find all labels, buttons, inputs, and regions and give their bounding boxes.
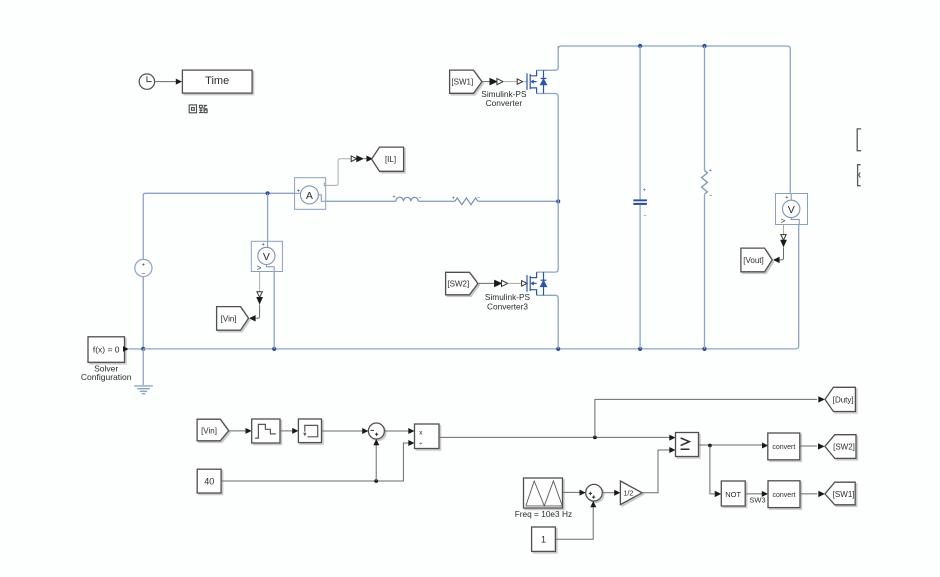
wire generator to sum2 [563,491,581,493]
wire load resistor branch top [704,46,706,171]
wire sum to divide [384,430,408,432]
partial tag bracket 2 at right edge [858,165,861,186]
node load resistor top [702,44,706,48]
svg-text:+: + [643,188,646,194]
wire divide to relational [439,436,670,438]
svg-text:Converter: Converter [486,98,523,108]
wire branch to sum bottom [375,445,377,481]
wire quantizer to hold [280,430,293,432]
partial tag bracket 1 at right edge [857,129,861,151]
svg-text:f(x) = 0: f(x) = 0 [93,345,120,355]
svg-text:[SW2]: [SW2] [447,279,469,288]
node junction V1 branch top [266,191,270,195]
wire branch to NOT [710,446,715,494]
svg-text:V: V [788,204,795,216]
svg-text:−: − [643,213,646,219]
svg-text:[Vin]: [Vin] [221,314,237,323]
svg-text:+: + [785,195,788,201]
solver configuration block f(x)=0 [88,337,125,363]
svg-text:+: + [142,263,145,269]
wire converter to IL tag [364,158,366,160]
DC voltage source [135,259,152,276]
svg-text:convert: convert [772,444,795,451]
divide block [415,424,440,449]
svg-text:÷: ÷ [419,441,423,448]
convert block 1 [768,433,800,460]
svg-text:1: 1 [541,534,546,544]
svg-text:Freq = 10e3 Hz: Freq = 10e3 Hz [515,509,572,519]
load resistor R1 [702,171,708,195]
node junction bottom bus left [141,347,145,351]
voltage sensor block Vout [776,194,808,226]
wire sensor I output to converter [326,159,352,186]
simulink-PS converter U1 [490,78,498,86]
clock block [139,74,154,89]
goto tag SW2 [825,435,856,459]
svg-text:[Duty]: [Duty] [833,395,854,404]
capacitor C1 [633,199,647,201]
goto tag Vout [741,248,772,272]
node duty branch [593,436,597,440]
voltage sensor block Vin [251,241,282,272]
wire converter to gate 1 [503,81,517,83]
goto tag Duty [825,387,855,411]
wire NOT to convert2 [745,493,762,495]
display block Time [182,70,252,93]
svg-text:+: + [392,195,395,201]
wire 1 to sum2 [555,507,593,539]
svg-text:40: 40 [204,476,214,486]
wire V1 branch down [267,193,269,241]
node capacitor top [638,44,642,48]
svg-text:[SW1]: [SW1] [833,490,855,499]
constant block 1 [532,527,556,551]
PS-Simulink converter for Vin [257,292,262,298]
PS-Simulink converter for IL [351,156,357,162]
wire sum2 to gain [602,492,615,494]
wire V1 minus to bus [273,272,275,349]
solver output arrow [123,346,129,352]
wire converter to Vout goto [780,247,784,260]
inductor [396,197,418,201]
svg-text:Configuration: Configuration [81,372,132,382]
svg-text:+: + [452,196,455,202]
wire SW1 to converter [482,81,490,83]
series resistor [455,198,478,205]
annotation 回路 (drawn strokes) [189,105,207,113]
wire capacitor branch bottom [639,205,641,349]
wire Vin to quantizer [229,430,246,432]
svg-text:[Vin]: [Vin] [201,427,217,436]
ground [134,386,153,394]
current sensor block [295,178,326,210]
wire convert2 to SW1 goto [800,493,817,495]
convert block 2 [768,481,800,508]
PS-Simulink converter for Vout [781,235,786,241]
wire V1 PS output down [259,272,261,292]
wire inductor to resistor [418,200,455,202]
svg-text:>: > [781,216,786,225]
wire converter to Vin goto [256,305,260,319]
quantizer block [252,419,280,443]
node branch 40 [374,479,378,483]
sum block 2 [586,484,603,501]
wire hold to sum [322,430,363,432]
svg-text:SW3: SW3 [749,495,765,504]
gain block 1/2 [620,481,642,505]
wire ground stem [142,349,144,385]
simulink-PS converter U2 [494,280,502,288]
bottom bus wire [143,225,798,349]
node load resistor on bus [702,347,706,351]
wire source to bottom bus [142,277,144,349]
sum block 1 [368,423,384,439]
triangle wave generator [524,478,563,508]
wire clock to Time [155,81,177,83]
svg-text:−: − [142,271,146,278]
wire converter to gate 2 [508,282,522,284]
wire solver to bottom bus [129,348,144,350]
wire duty branch [595,399,817,437]
svg-text:x: x [419,429,423,436]
svg-text:V: V [263,251,270,263]
wire V2 PS output down [783,225,785,235]
goto tag IL [372,147,404,171]
svg-text:>: > [257,264,262,273]
svg-text:[IL]: [IL] [385,155,396,164]
node capacitor on bus [638,347,642,351]
goto tag SW1 [825,482,855,505]
svg-text:[Vout]: [Vout] [743,256,763,265]
wire SW2 to converter [478,282,495,284]
svg-text:[SW1]: [SW1] [451,78,473,87]
node V1 minus on bus [272,347,276,351]
wire load resistor branch bottom [704,194,706,349]
top bus wire [558,46,790,194]
goto tag Vin [217,307,249,331]
svg-text:[SW2]: [SW2] [833,442,855,451]
svg-text:A: A [306,190,313,202]
wire convert1 to SW2 goto [800,445,817,447]
relational operator block [676,433,699,457]
constant block 40 [197,469,221,493]
svg-text:convert: convert [773,492,796,499]
node midpoint [556,199,560,203]
svg-text:NOT: NOT [725,490,741,499]
svg-text:Time: Time [205,75,229,87]
logical operator NOT [721,481,745,506]
wire capacitor branch top [639,46,641,199]
from tag Vin (control) [197,419,229,441]
svg-text:+: + [709,168,712,174]
svg-text:Converter3: Converter3 [487,301,528,311]
mosfet Q1 [527,46,558,201]
wire relational output [699,444,763,446]
wire resistor to midpoint node [478,200,558,202]
wire 40 to divide [221,443,408,481]
svg-text:−: − [709,193,712,199]
from tag SW2 [446,272,478,295]
svg-text:1/2: 1/2 [623,489,633,498]
wire left vertical top corner [143,193,294,259]
from tag SW1 [450,70,482,93]
mosfet Q2 [527,201,558,349]
wire sensor output through L and R [326,200,396,202]
node mosfet2 source on bus [556,347,560,351]
sample hold block [298,419,321,443]
wire gain to relational [642,450,670,493]
svg-text:+: + [262,242,265,248]
